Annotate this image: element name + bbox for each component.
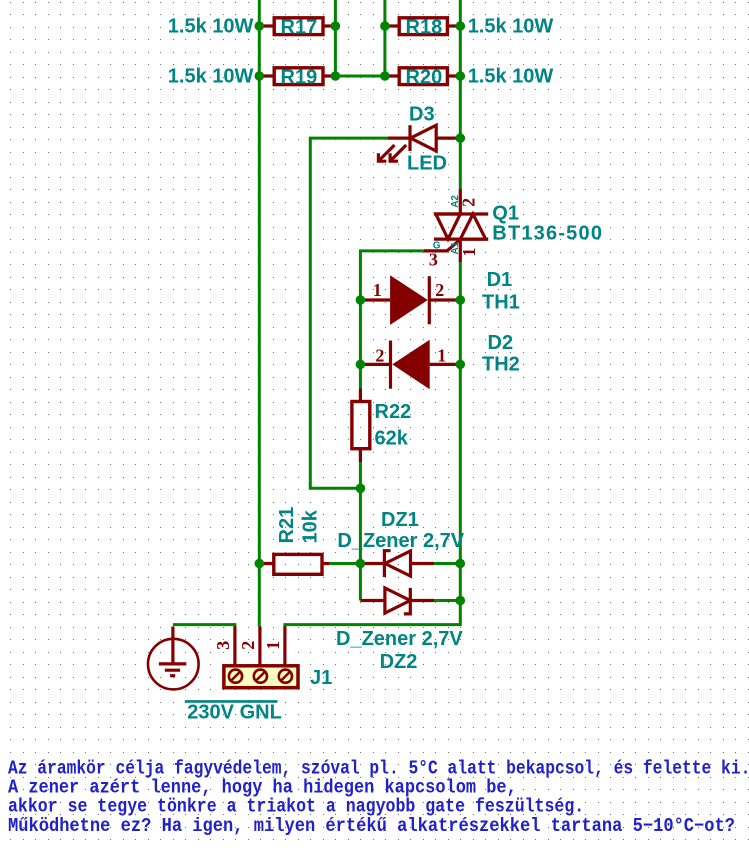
- svg-text:62k: 62k: [375, 428, 409, 450]
- svg-text:1: 1: [437, 346, 446, 366]
- svg-text:R22: R22: [375, 401, 412, 423]
- svg-text:1.5k 10W: 1.5k 10W: [168, 15, 254, 37]
- svg-text:Működhetne ez? Ha igen, milyen: Működhetne ez? Ha igen, milyen értékű al…: [8, 816, 735, 837]
- svg-text:230V GNL: 230V GNL: [187, 702, 281, 724]
- svg-text:1.5k 10W: 1.5k 10W: [168, 65, 254, 87]
- zener DZ1: [360, 551, 434, 577]
- resistor R22: [352, 402, 370, 449]
- thyristor D1: [360, 275, 460, 325]
- resistor R21: [274, 554, 322, 574]
- resistor R17: [274, 18, 323, 35]
- wire D3 anode to left rail down to R22 bottom junction: [310, 138, 387, 488]
- svg-text:2: 2: [459, 198, 479, 207]
- svg-text:R18: R18: [406, 17, 443, 39]
- svg-text:akkor se tegye tönkre a triako: akkor se tegye tönkre a triakot a nagyob…: [8, 797, 584, 818]
- svg-text:DZ2: DZ2: [380, 651, 418, 673]
- svg-text:LED: LED: [407, 152, 447, 174]
- svg-text:1: 1: [373, 280, 382, 300]
- wire DZ1 cathode-side to column D: [434, 562, 460, 565]
- wire R21 right to node: [329, 562, 360, 565]
- triac Q1: [424, 189, 489, 262]
- junction dots: [254, 21, 465, 605]
- wire DZ2 to column D: [434, 599, 460, 602]
- svg-text:TH1: TH1: [482, 292, 520, 314]
- svg-text:1: 1: [263, 641, 283, 650]
- wire column D upper (top to triac A2): [459, 0, 462, 189]
- svg-text:2: 2: [375, 346, 384, 366]
- svg-text:Q1: Q1: [492, 203, 519, 225]
- svg-text:D2: D2: [488, 332, 514, 354]
- wire column C (top to R18/R20 left side): [383, 0, 386, 76]
- svg-text:Az áramkör célja fagyvédelem,: Az áramkör célja fagyvédelem, szóval pl.…: [8, 759, 749, 780]
- wire column A (net from top to R21 and connector pin 2): [258, 0, 261, 627]
- connector J1: [224, 626, 298, 687]
- wire R19-R20 row link: [335, 75, 385, 78]
- svg-text:2: 2: [238, 641, 258, 650]
- wire column E lower (R22 bottom through DZ1 junction to DZ2 anode): [359, 462, 362, 601]
- net label 230V GNL bar: [185, 700, 278, 703]
- svg-text:R21: R21: [276, 507, 298, 544]
- svg-text:R20: R20: [406, 67, 443, 89]
- resistor R19: [274, 68, 323, 85]
- svg-text:DZ1: DZ1: [381, 509, 419, 531]
- wire ground to connector pin 3: [173, 625, 235, 627]
- wire column D lower (triac A1 down to DZ2 junction and connector pin 1): [285, 262, 460, 627]
- svg-text:J1: J1: [310, 667, 332, 689]
- svg-text:D_Zener 2,7V: D_Zener 2,7V: [337, 530, 464, 552]
- svg-text:1.5k 10W: 1.5k 10W: [468, 15, 554, 37]
- wire triac gate to node column E: [360, 251, 423, 389]
- svg-text:D_Zener 2,7V: D_Zener 2,7V: [336, 628, 463, 650]
- svg-text:2: 2: [435, 280, 444, 300]
- svg-text:3: 3: [213, 641, 233, 650]
- zener DZ2: [360, 588, 434, 614]
- svg-text:D3: D3: [409, 103, 435, 125]
- svg-text:R17: R17: [281, 17, 318, 39]
- svg-text:D1: D1: [487, 269, 513, 291]
- resistor R20: [399, 68, 447, 85]
- svg-text:10k: 10k: [299, 509, 321, 543]
- svg-text:TH2: TH2: [482, 354, 520, 376]
- ground symbol: [148, 627, 199, 690]
- svg-text:3: 3: [429, 250, 438, 270]
- svg-text:R19: R19: [281, 67, 318, 89]
- svg-text:1.5k 10W: 1.5k 10W: [468, 65, 554, 87]
- resistor R18: [399, 18, 447, 35]
- thyristor D2: [360, 340, 460, 390]
- wire column B (top to R17/R19 right side): [334, 0, 337, 76]
- LED D3: [378, 125, 460, 161]
- svg-text:1: 1: [459, 248, 479, 257]
- svg-text:BT136-500: BT136-500: [492, 223, 603, 245]
